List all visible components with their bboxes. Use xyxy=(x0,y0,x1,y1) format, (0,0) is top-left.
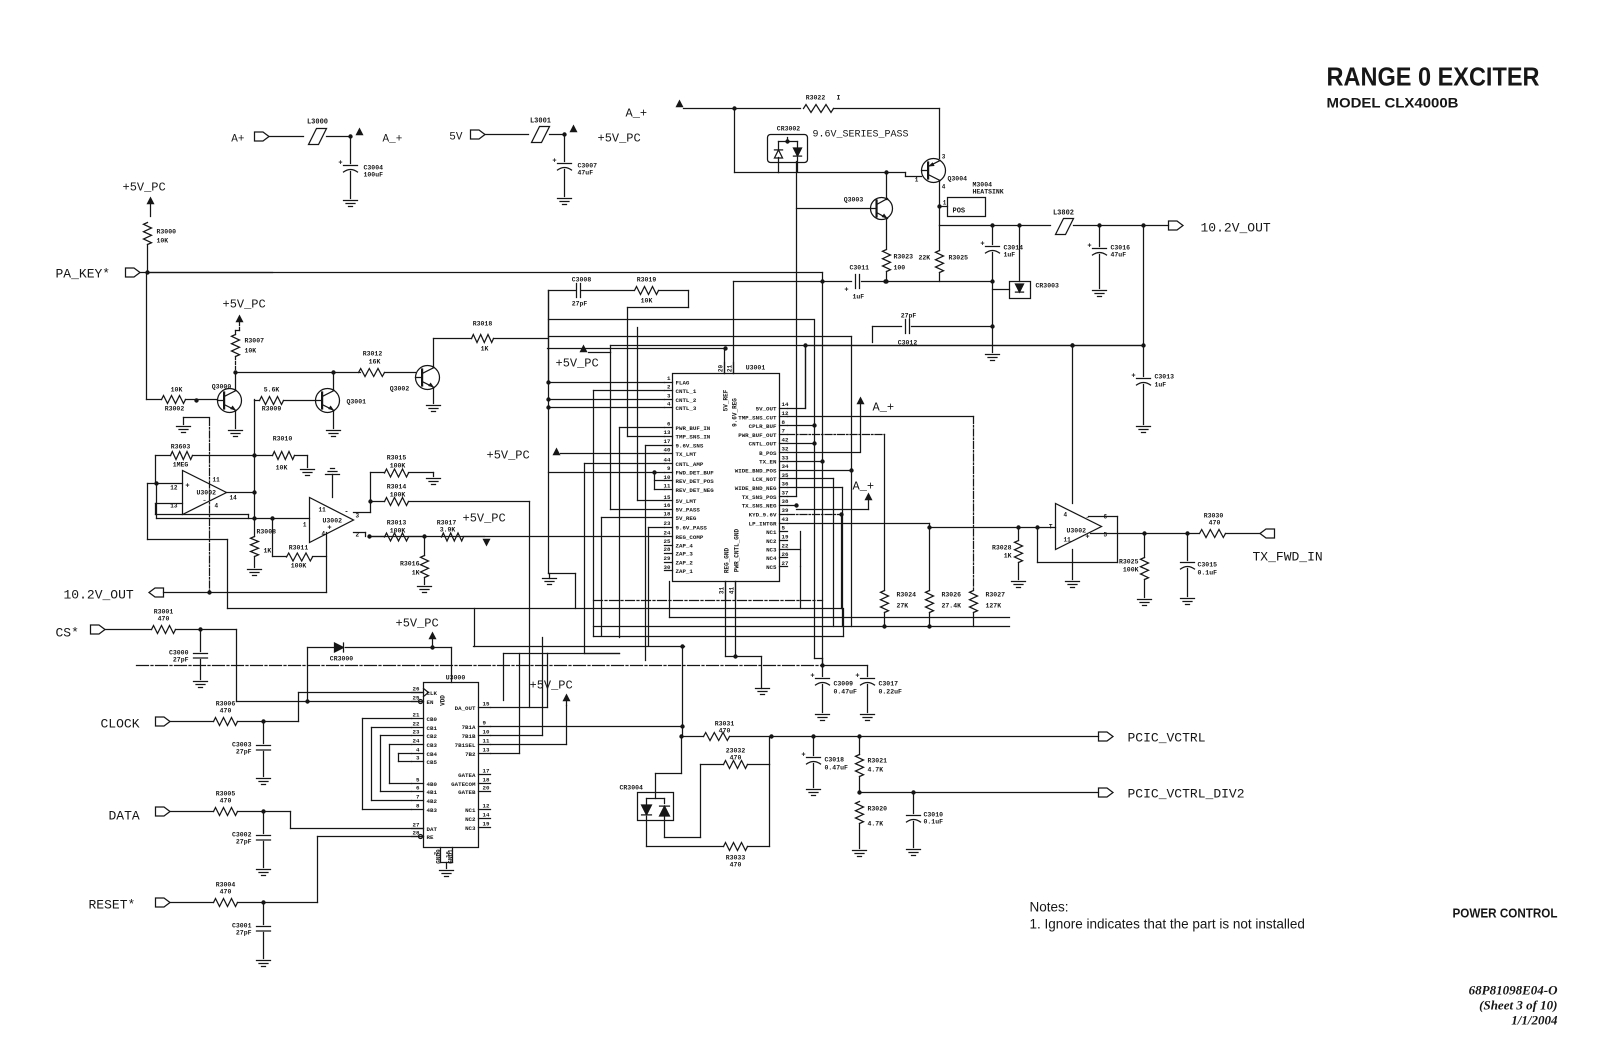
U3001 pin 26 NC4 xyxy=(780,557,788,559)
U3000 pin 14 NC2 xyxy=(479,818,491,820)
svg-text:3.9K: 3.9K xyxy=(440,527,456,534)
wire CR3004 net xyxy=(681,737,683,774)
svg-text:RESET*: RESET* xyxy=(89,898,136,913)
resistor R3025 22K xyxy=(936,251,944,273)
svg-text:POWER CONTROL: POWER CONTROL xyxy=(1453,907,1558,921)
wire R3019 loop down xyxy=(688,291,690,308)
wire Q3000 collector xyxy=(235,373,237,390)
svg-text:+: + xyxy=(1131,373,1135,381)
svg-text:10K: 10K xyxy=(171,387,183,394)
svg-text:POS: POS xyxy=(953,208,966,216)
svg-text:16: 16 xyxy=(664,502,671,509)
svg-text:1K: 1K xyxy=(1004,553,1012,560)
svg-text:PWR_BUF_IN: PWR_BUF_IN xyxy=(676,425,711,432)
svg-text:19: 19 xyxy=(483,821,490,828)
svg-text:R3024: R3024 xyxy=(897,592,917,599)
U3001 pin 4 CNTL_3 xyxy=(665,407,673,409)
wire CNTL_AMP xyxy=(585,463,665,465)
svg-text:HEATSINK: HEATSINK xyxy=(973,189,1004,196)
capacitor C3004 100uF xyxy=(350,137,352,164)
svg-text:7B1A: 7B1A xyxy=(462,724,476,731)
svg-text:R3012: R3012 xyxy=(363,351,383,358)
svg-text:CR3000: CR3000 xyxy=(330,656,354,663)
svg-text:ZAP_3: ZAP_3 xyxy=(676,550,694,557)
U3001 pin 3 CNTL_2 xyxy=(665,399,673,401)
wire CS to EN xyxy=(201,629,237,631)
ground opamp2 (inverted) xyxy=(326,474,340,476)
resistor R3027 127K xyxy=(970,591,978,613)
bus horizontal y656 regGnd xyxy=(726,656,762,658)
svg-text:LCK_NOT: LCK_NOT xyxy=(752,476,777,483)
svg-text:10.2V_OUT: 10.2V_OUT xyxy=(1201,221,1271,236)
resistor R3006 xyxy=(171,721,214,723)
wire TX_EN xyxy=(788,461,823,463)
U3000 pin 10 7B1B xyxy=(479,735,491,737)
svg-text:TX_EN: TX_EN xyxy=(759,459,777,466)
svg-text:27pF: 27pF xyxy=(236,749,252,756)
svg-text:0.1uF: 0.1uF xyxy=(924,819,944,826)
svg-text:+: + xyxy=(801,752,805,760)
svg-text:R3015: R3015 xyxy=(387,455,407,462)
wire Q3002 collector to R3018 xyxy=(433,339,435,367)
resistor R3002 10K xyxy=(162,396,186,404)
wire feedback node x254 xyxy=(254,400,256,519)
svg-text:7B1SEL: 7B1SEL xyxy=(455,742,476,749)
wire opamp2 out pin3 xyxy=(354,512,371,514)
capacitor C3009 0.47uF xyxy=(822,666,824,677)
wire to U3002 pin4 xyxy=(1072,346,1074,504)
U3001 bottom pins 31 41 xyxy=(725,582,727,601)
U3001 pin 35 LCK_NOT xyxy=(780,478,788,480)
svg-text:Q3002: Q3002 xyxy=(390,386,410,393)
U3001 pin 36 WIDE_BND_NEG xyxy=(780,487,788,489)
ground xyxy=(427,478,441,480)
resistor R3030 470 xyxy=(1200,530,1226,538)
svg-text:CB2: CB2 xyxy=(427,733,438,740)
wire xyxy=(1074,225,1169,227)
resistor R3018 1K xyxy=(472,335,494,343)
U3000 pin 6 4B1 xyxy=(412,791,424,793)
svg-text:R3018: R3018 xyxy=(473,321,493,328)
svg-text:CNTL_1: CNTL_1 xyxy=(676,388,697,395)
resistor R3023 100 xyxy=(883,250,891,272)
svg-text:9.6V_PASS: 9.6V_PASS xyxy=(676,524,708,531)
svg-text:43: 43 xyxy=(782,516,789,523)
svg-text:Notes:: Notes: xyxy=(1030,900,1069,915)
wire B_POS A_+ arrow xyxy=(788,452,860,454)
transistor Q3001 xyxy=(316,389,340,413)
svg-text:REG_COMP: REG_COMP xyxy=(676,534,704,541)
U3001 pin 8 CPLR_BUF xyxy=(780,425,788,427)
svg-text:40: 40 xyxy=(664,447,671,454)
svg-text:NC2: NC2 xyxy=(465,816,476,823)
U3000 pin 7 4B2 xyxy=(412,800,424,802)
svg-text:CB3: CB3 xyxy=(427,742,438,749)
U3001 pin 44 CNTL_AMP xyxy=(665,463,673,465)
svg-text:CLOCK: CLOCK xyxy=(101,717,140,732)
svg-text:+: + xyxy=(980,241,984,249)
svg-text:+5V_PC: +5V_PC xyxy=(123,181,166,195)
svg-text:LP_INTGR: LP_INTGR xyxy=(749,520,777,527)
ground xyxy=(1181,598,1195,600)
svg-text:PCIC_VCTRL_DIV2: PCIC_VCTRL_DIV2 xyxy=(1128,787,1245,802)
wire LP_INTGR long to op-amp xyxy=(788,523,930,525)
U3001 pin 5 NC1 xyxy=(780,531,788,533)
U3000 pin 8 4B3 xyxy=(412,809,424,811)
svg-text:CB4: CB4 xyxy=(427,751,438,758)
svg-text:27.4K: 27.4K xyxy=(942,603,962,610)
svg-text:A_+: A_+ xyxy=(626,107,648,121)
svg-text:R3026: R3026 xyxy=(942,592,962,599)
wire opamp1 plus input xyxy=(148,483,183,485)
ground xyxy=(861,714,875,716)
svg-text:4: 4 xyxy=(322,531,326,538)
svg-text:10: 10 xyxy=(483,729,490,736)
svg-text:CR3003: CR3003 xyxy=(1036,283,1060,290)
svg-text:Q3004: Q3004 xyxy=(948,176,968,183)
wire node y281 xyxy=(886,281,993,283)
bus y336 xyxy=(549,336,852,338)
svg-text:16K: 16K xyxy=(369,359,381,366)
svg-text:44: 44 xyxy=(664,457,671,464)
U3001 pin 32 B_POS xyxy=(780,452,788,454)
svg-text:39: 39 xyxy=(782,507,789,514)
svg-text:ZAP_2: ZAP_2 xyxy=(676,559,694,566)
svg-text:7: 7 xyxy=(782,428,786,435)
svg-text:23: 23 xyxy=(664,520,671,527)
ground xyxy=(257,778,271,780)
svg-text:DAT: DAT xyxy=(427,826,438,833)
svg-text:GND0: GND0 xyxy=(436,849,443,864)
svg-text:470: 470 xyxy=(730,755,742,762)
svg-text:R3020: R3020 xyxy=(868,806,888,813)
svg-text:27: 27 xyxy=(782,560,789,567)
wire TMP_SNS_CUT to x973 xyxy=(788,416,974,418)
svg-text:26: 26 xyxy=(413,686,420,693)
wire feedback pin6 xyxy=(1089,516,1118,518)
svg-text:14: 14 xyxy=(782,401,789,408)
svg-text:REV_DET_NEG: REV_DET_NEG xyxy=(676,487,715,494)
svg-text:-: - xyxy=(202,497,207,506)
wire CR3004 left diode to R3033 xyxy=(646,817,648,847)
svg-text:10K: 10K xyxy=(157,238,169,245)
resistor R3000 10K xyxy=(144,223,152,245)
bus y348 5V_REF xyxy=(548,348,726,350)
svg-text:WIDE_BND_POS: WIDE_BND_POS xyxy=(735,468,777,475)
U3001 pin 42 CNTL_OUT xyxy=(780,443,788,445)
wire C3008 net xyxy=(549,290,576,292)
wire PWR_BUF_OUT to R3024 xyxy=(788,434,885,436)
svg-text:0.22uF: 0.22uF xyxy=(879,689,903,696)
wire CPLR_BUF / CNTL_OUT down to caps xyxy=(788,425,815,427)
svg-text:10K: 10K xyxy=(245,348,257,355)
capacitor C3014 1uF xyxy=(992,226,994,245)
svg-text:33: 33 xyxy=(782,454,789,461)
svg-text:29: 29 xyxy=(664,555,671,562)
U3000 pin 27 DAT xyxy=(412,828,424,830)
svg-text:GATECOM: GATECOM xyxy=(451,781,476,788)
svg-text:8: 8 xyxy=(416,803,420,810)
wire TMP_SNS_IN xyxy=(628,436,665,438)
svg-text:18: 18 xyxy=(483,777,490,784)
svg-text:-: - xyxy=(344,509,348,517)
svg-text:R3007: R3007 xyxy=(245,338,265,345)
resistor R3014 100K xyxy=(385,498,409,506)
svg-text:A_+: A_+ xyxy=(873,401,895,415)
capacitor C3003 27pF xyxy=(263,722,265,744)
svg-text:0.1uF: 0.1uF xyxy=(1198,570,1218,577)
wire collector rail xyxy=(236,372,361,374)
U3000 pin 23 CB2 xyxy=(412,735,424,737)
wire 5V_PASS xyxy=(611,509,665,511)
U3001 pin 17 9.6V_SNS xyxy=(665,445,673,447)
wire PA_KEY down to R3002 xyxy=(146,273,148,400)
svg-text:36: 36 xyxy=(782,481,789,488)
svg-text:25: 25 xyxy=(664,538,671,545)
svg-text:R3021: R3021 xyxy=(868,758,888,765)
ground xyxy=(194,681,208,683)
svg-text:R3001: R3001 xyxy=(154,609,174,616)
svg-text:6: 6 xyxy=(667,421,671,428)
svg-text:1/1/2004: 1/1/2004 xyxy=(1511,1013,1558,1028)
svg-text:12: 12 xyxy=(170,485,178,492)
svg-text:RE: RE xyxy=(427,834,434,841)
svg-text:TMP_SNS_CUT: TMP_SNS_CUT xyxy=(738,414,777,421)
svg-text:CNTL_AMP: CNTL_AMP xyxy=(676,461,704,468)
svg-text:1uF: 1uF xyxy=(1155,382,1167,389)
U3000 pin 28 RE xyxy=(412,836,424,838)
capacitor C3007 47uF xyxy=(564,135,566,162)
power arrow +5V_PC xyxy=(570,125,578,133)
resistor R3603 1MEG xyxy=(171,452,193,460)
svg-text:1K: 1K xyxy=(412,570,420,577)
transistor Q3004 xyxy=(922,159,946,183)
U3000 pin 3 CB5 xyxy=(412,761,424,763)
svg-text:PCIC_VCTRL: PCIC_VCTRL xyxy=(1128,731,1206,746)
svg-text:R3014: R3014 xyxy=(387,484,407,491)
svg-text:21: 21 xyxy=(727,365,734,373)
svg-text:100K: 100K xyxy=(390,463,406,470)
wire opamp1 minus input loop xyxy=(156,503,183,505)
svg-text:FLAG: FLAG xyxy=(676,379,690,386)
svg-text:13: 13 xyxy=(483,747,490,754)
svg-text:+: + xyxy=(1087,243,1091,251)
U3001 pin 1 FLAG xyxy=(665,382,673,384)
U3001 pin 37 TX_SNS_POS xyxy=(780,496,788,498)
wire FLAG/CNTL gnd net xyxy=(549,382,665,384)
wire PWR_BUF_IN xyxy=(620,427,665,429)
resistor R3012 16K xyxy=(359,369,385,377)
svg-text:WIDE_BND_NEG: WIDE_BND_NEG xyxy=(735,485,777,492)
svg-text:2: 2 xyxy=(433,852,440,855)
wire 5V_LMT xyxy=(638,500,665,502)
ground xyxy=(807,789,821,791)
svg-text:R3006: R3006 xyxy=(216,701,236,708)
svg-text:1uF: 1uF xyxy=(853,294,865,301)
svg-text:L3000: L3000 xyxy=(307,119,328,127)
svg-text:27pF: 27pF xyxy=(236,930,252,937)
wire CR3004 right diode to R3032 xyxy=(664,817,666,838)
svg-text:MODEL CLX4000B: MODEL CLX4000B xyxy=(1327,96,1459,111)
U3001 pin 13 TMP_SNS_IN xyxy=(665,436,673,438)
wire NC bracket xyxy=(800,532,802,567)
svg-text:100K: 100K xyxy=(390,492,406,499)
bus horizontal y665 xyxy=(137,665,823,667)
wire pin 11 ground xyxy=(1072,550,1074,580)
svg-text:1: 1 xyxy=(667,375,671,382)
wire Q3000 emitter to ground xyxy=(235,412,237,429)
IC U3000 xyxy=(424,683,479,848)
resistor R3021 4.7K xyxy=(856,755,864,777)
svg-text:21: 21 xyxy=(413,712,420,719)
U3001 pin 15 5V_LMT xyxy=(665,500,673,502)
ground xyxy=(257,960,271,962)
svg-text:22: 22 xyxy=(782,542,789,549)
svg-text:13: 13 xyxy=(664,429,671,436)
svg-text:CB0: CB0 xyxy=(427,716,438,723)
U3000 pin 24 CB3 xyxy=(412,744,424,746)
svg-text:1uF: 1uF xyxy=(1004,252,1016,259)
svg-text:11: 11 xyxy=(483,738,490,745)
svg-text:R3027: R3027 xyxy=(986,592,1006,599)
wire opamp2 input line xyxy=(157,518,310,520)
resistor R3028 1K xyxy=(1015,541,1023,563)
U3001 pin 29 ZAP_2 xyxy=(665,562,673,564)
ground xyxy=(907,849,921,851)
U3001 pin 25 ZAP_4 xyxy=(665,545,673,547)
wire TX_SNS_POS/NEG A_+ xyxy=(788,496,797,498)
wire WIDE_BND_POS xyxy=(788,470,852,472)
svg-text:PWR_BUF_OUT: PWR_BUF_OUT xyxy=(738,432,777,439)
wire opamp1 output xyxy=(227,492,255,494)
svg-text:CNTL_OUT: CNTL_OUT xyxy=(749,441,777,448)
svg-text:22K: 22K xyxy=(919,255,931,262)
svg-text:R3019: R3019 xyxy=(637,277,657,284)
U3001 pin 14 5V_OUT xyxy=(780,408,788,410)
svg-text:1: 1 xyxy=(915,177,919,184)
svg-text:+: + xyxy=(185,483,189,491)
IC U3001 xyxy=(673,374,780,582)
U3001 pin 23 9.6V_PASS xyxy=(665,527,673,529)
svg-text:+5V_PC: +5V_PC xyxy=(463,512,506,526)
svg-text:+: + xyxy=(844,287,848,295)
svg-text:NC5: NC5 xyxy=(766,564,777,571)
svg-text:C3017: C3017 xyxy=(879,681,899,688)
U3001 pin 7 PWR_BUF_OUT xyxy=(780,434,788,436)
svg-text:30: 30 xyxy=(664,564,671,571)
svg-text:4.7K: 4.7K xyxy=(868,767,884,774)
svg-text:C3010: C3010 xyxy=(924,812,944,819)
U3000 pin 13 7B2 xyxy=(479,753,491,755)
svg-text:R3009: R3009 xyxy=(262,406,282,413)
wire REG_COMP long xyxy=(370,536,665,538)
svg-text:37: 37 xyxy=(782,490,789,497)
svg-text:C3000: C3000 xyxy=(169,650,189,657)
U3001 pin 43 LP_INTGR xyxy=(780,523,788,525)
wire Q3004 emitter to POS/rail xyxy=(939,182,941,226)
svg-text:TX_FWD_IN: TX_FWD_IN xyxy=(1253,550,1323,565)
resistor R3025b 100K xyxy=(1141,558,1149,580)
resistor R3017 3.9K xyxy=(442,533,464,541)
svg-text:27pF: 27pF xyxy=(236,839,252,846)
U3000 pin 22 CB1 xyxy=(412,727,424,729)
svg-text:5: 5 xyxy=(1104,532,1108,539)
svg-text:11: 11 xyxy=(319,507,327,514)
svg-text:127K: 127K xyxy=(986,603,1002,610)
svg-text:27pF: 27pF xyxy=(572,301,588,308)
svg-text:Q3000: Q3000 xyxy=(212,384,232,391)
svg-text:10: 10 xyxy=(664,474,671,481)
svg-text:NC1: NC1 xyxy=(465,807,476,814)
U3001 pin 16 5V_PASS xyxy=(665,509,673,511)
svg-text:NC4: NC4 xyxy=(766,555,777,562)
svg-text:TX_SNS_POS: TX_SNS_POS xyxy=(742,494,777,501)
bus y345 +5V feed xyxy=(611,345,1144,347)
svg-text:DA_OUT: DA_OUT xyxy=(455,705,476,712)
svg-text:+5V_PC: +5V_PC xyxy=(556,357,599,371)
svg-text:C3011: C3011 xyxy=(850,265,870,272)
svg-text:R3028: R3028 xyxy=(992,545,1012,552)
svg-text:9.6V_SNS: 9.6V_SNS xyxy=(676,443,704,450)
bus y319 xyxy=(549,319,814,321)
svg-text:NC2: NC2 xyxy=(766,538,777,545)
svg-text:47uF: 47uF xyxy=(1111,252,1127,259)
svg-text:U3001: U3001 xyxy=(746,365,766,372)
ground xyxy=(986,354,1000,356)
bus horizontal y600 xyxy=(594,600,823,602)
svg-text:TX_LMT: TX_LMT xyxy=(676,451,697,458)
svg-text:12: 12 xyxy=(483,803,490,810)
svg-text:470: 470 xyxy=(220,798,232,805)
svg-text:27: 27 xyxy=(413,822,420,829)
svg-text:470: 470 xyxy=(220,889,232,896)
svg-text:10.2V_OUT: 10.2V_OUT xyxy=(64,588,134,603)
wire FWD/REV bracket xyxy=(549,472,665,474)
wire KYD_9.6V xyxy=(788,514,842,516)
svg-text:100uF: 100uF xyxy=(364,172,384,179)
thermistor POS box xyxy=(940,206,948,208)
wire Q3002 emitter to ground xyxy=(433,389,435,404)
op-amp U3002a xyxy=(183,471,227,515)
svg-text:ZAP_4: ZAP_4 xyxy=(676,542,694,549)
bus horizontal y608 xyxy=(228,608,842,610)
svg-text:U3002: U3002 xyxy=(197,490,217,497)
resistor R3015 100K xyxy=(385,469,409,477)
zener CR3003 xyxy=(1019,226,1021,282)
svg-text:1: 1 xyxy=(303,522,307,529)
svg-text:9: 9 xyxy=(483,720,487,727)
resistor R3033 470 xyxy=(724,843,748,851)
svg-text:CR3002: CR3002 xyxy=(777,126,801,133)
svg-text:18: 18 xyxy=(664,511,671,518)
svg-text:11: 11 xyxy=(213,477,221,484)
svg-text:+5V_PC: +5V_PC xyxy=(396,617,439,631)
wire PA_KEY branch down xyxy=(822,282,824,666)
U3001 pin 18 5V_REG xyxy=(665,517,673,519)
svg-text:4.7K: 4.7K xyxy=(868,821,884,828)
svg-text:35: 35 xyxy=(782,472,789,479)
resistor R3019 10K xyxy=(635,287,659,295)
wire 5V_REG xyxy=(602,517,665,519)
svg-text:RANGE 0 EXCITER: RANGE 0 EXCITER xyxy=(1327,62,1540,92)
dual diode CR3002 xyxy=(768,135,808,163)
svg-text:C3013: C3013 xyxy=(1155,374,1175,381)
wire WIDE_BND_NEG xyxy=(788,487,843,489)
bus horizontal y635 xyxy=(594,636,844,638)
svg-text:A_+: A_+ xyxy=(853,480,875,494)
svg-text:470: 470 xyxy=(158,616,170,623)
svg-text:+: + xyxy=(552,158,556,166)
